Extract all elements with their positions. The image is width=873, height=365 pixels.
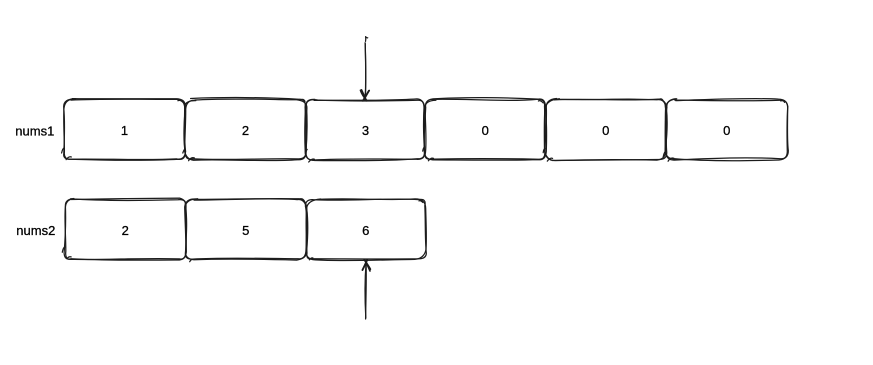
svg-text:3: 3 xyxy=(362,123,369,138)
svg-text:6: 6 xyxy=(362,223,369,238)
nums1 cell 0 (value 1) xyxy=(62,99,186,161)
svg-text:0: 0 xyxy=(602,123,609,138)
svg-text:nums2: nums2 xyxy=(16,223,55,238)
nums1 cell 4 (value 0) xyxy=(543,99,667,162)
svg-text:2: 2 xyxy=(122,223,129,238)
svg-text:2: 2 xyxy=(242,123,249,138)
nums2 cell 2 (value 6) xyxy=(305,199,426,261)
svg-text:nums1: nums1 xyxy=(15,123,54,138)
nums2 cell 1 (value 5) xyxy=(185,199,308,262)
bottom arrow pointing up at nums2 cell index 2 xyxy=(362,259,370,319)
svg-text:5: 5 xyxy=(242,223,249,238)
nums1 cell 5 (value 0) xyxy=(663,99,788,162)
svg-text:0: 0 xyxy=(482,123,489,138)
svg-text:0: 0 xyxy=(723,123,730,138)
nums2 cell 0 (value 2) xyxy=(62,198,186,260)
nums1 cell 1 (value 2) xyxy=(183,98,307,161)
nums1 cell 2 (value 3) xyxy=(305,99,425,162)
svg-text:1: 1 xyxy=(121,123,128,138)
top arrow pointing down at nums1 cell index 2 xyxy=(361,37,370,101)
nums1 cell 3 (value 0) xyxy=(423,98,547,161)
